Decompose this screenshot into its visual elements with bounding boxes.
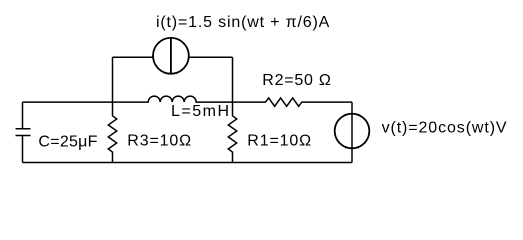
svg-text:i(t)=1.5 sin(wt + π/6)A: i(t)=1.5 sin(wt + π/6)A <box>156 14 330 31</box>
svg-text:R3=10Ω: R3=10Ω <box>127 133 191 150</box>
svg-text:L=5mH: L=5mH <box>171 103 229 120</box>
svg-text:v(t)=20cos(wt)V: v(t)=20cos(wt)V <box>382 119 507 136</box>
svg-text:R2=50 Ω: R2=50 Ω <box>262 72 331 89</box>
svg-text:C=25μF: C=25μF <box>38 133 97 150</box>
svg-text:R1=10Ω: R1=10Ω <box>247 133 311 150</box>
